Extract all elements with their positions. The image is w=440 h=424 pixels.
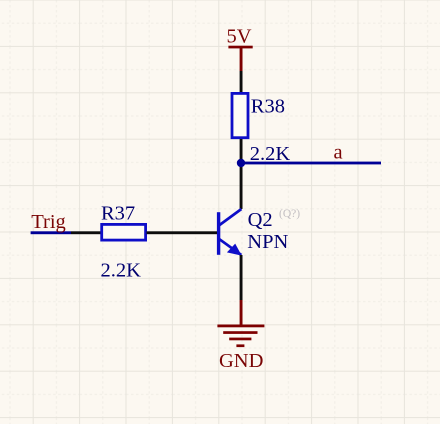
- svg-text:R37: R37: [101, 203, 135, 225]
- wire (5V bar to R38 top pin): [240, 71, 243, 94]
- wire Trig segment (blue): [31, 231, 71, 234]
- svg-text:5V: 5V: [227, 26, 252, 48]
- svg-text:Trig: Trig: [31, 211, 66, 233]
- svg-text:NPN: NPN: [247, 231, 288, 253]
- node junction dot: [237, 159, 245, 167]
- svg-text:a: a: [334, 142, 343, 164]
- resistor R38: [232, 93, 248, 137]
- svg-text:R38: R38: [251, 95, 285, 117]
- wire (R37 right pin to Q2 base pin): [147, 231, 218, 234]
- wire (Q2 emitter pin down): [240, 255, 243, 300]
- svg-text:Q2: Q2: [248, 209, 273, 231]
- ground bar 4: [236, 344, 244, 347]
- power pin 5V: [240, 48, 243, 71]
- ground bar 3: [229, 338, 251, 341]
- svg-text:(Q?): (Q?): [279, 208, 300, 220]
- ground bar 1: [217, 325, 264, 328]
- transistor Q2 base bar: [217, 212, 220, 255]
- wire (Trig to R37 left pin, black): [71, 231, 102, 234]
- resistor R37: [102, 224, 146, 240]
- wire (R38 bottom pin to node and to Q2 collector): [240, 139, 243, 209]
- transistor Q2 emitter diagonal with arrow: [218, 238, 242, 255]
- wire net a (horizontal): [241, 162, 381, 165]
- ground bar 2: [223, 331, 257, 334]
- svg-text:GND: GND: [219, 350, 263, 372]
- power symbol 5V bar: [228, 46, 252, 49]
- ground pin (red): [240, 300, 243, 326]
- transistor Q2 collector diagonal: [218, 209, 241, 226]
- svg-text:2.2K: 2.2K: [101, 260, 142, 282]
